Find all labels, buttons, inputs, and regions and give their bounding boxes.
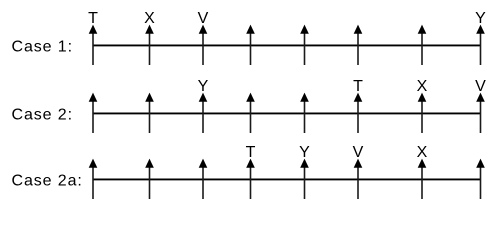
event arrow 3.3 [199,159,208,199]
event arrow 3.5 [300,159,309,199]
svg-text:Y: Y [475,10,486,27]
event arrow 3.8 [476,159,485,199]
event label Y (row 2) [198,78,209,95]
svg-text:T: T [246,144,256,161]
event label X (row 2) [417,78,428,95]
event arrow 3.4 [246,159,255,199]
svg-text:V: V [353,144,364,161]
event arrow 2.3 [199,93,208,133]
svg-text:Case 2:: Case 2: [12,106,73,123]
svg-text:T: T [353,78,363,95]
event arrow 1.5 [300,25,309,65]
event label T (row 1) [88,10,98,27]
event arrow 3.6 [354,159,363,199]
event label T (row 3) [246,144,256,161]
event arrow 2.7 [418,93,427,133]
event label X (row 1) [144,10,155,27]
event label Y (row 3) [299,144,310,161]
event arrow 2.8 [476,93,485,133]
event label V (row 1) [198,10,209,27]
svg-text:Y: Y [198,78,209,95]
row label "Case 2:" [12,106,73,123]
event arrow 2.5 [300,93,309,133]
svg-text:V: V [198,10,209,27]
event arrow 1.4 [246,25,255,65]
svg-text:T: T [88,10,98,27]
event label V (row 3) [353,144,364,161]
event label Y (row 1) [475,10,486,27]
event arrow 3.1 [89,159,98,199]
svg-text:X: X [417,144,428,161]
event label T (row 2) [353,78,363,95]
event arrow 3.2 [145,159,154,199]
svg-text:Y: Y [299,144,310,161]
event arrow 2.2 [145,93,154,133]
event label X (row 3) [417,144,428,161]
timeline Case 2 axis line [93,112,481,114]
event arrow 2.6 [354,93,363,133]
svg-text:X: X [417,78,428,95]
event arrow 1.2 [145,25,154,65]
event arrow 1.1 [89,25,98,65]
timeline Case 2a axis line [93,178,481,180]
row label "Case 2a:" [12,172,83,189]
event arrow 1.7 [418,25,427,65]
svg-text:V: V [475,78,486,95]
svg-text:Case 1:: Case 1: [12,38,73,55]
timeline Case 1 axis line [93,44,481,46]
event arrow 1.3 [199,25,208,65]
svg-text:X: X [144,10,155,27]
event arrow 3.7 [418,159,427,199]
event arrow 1.6 [354,25,363,65]
row label "Case 1:" [12,38,73,55]
svg-text:Case 2a:: Case 2a: [12,172,83,189]
event arrow 2.4 [246,93,255,133]
event arrow 2.1 [89,93,98,133]
event label V (row 2) [475,78,486,95]
event arrow 1.8 [476,25,485,65]
